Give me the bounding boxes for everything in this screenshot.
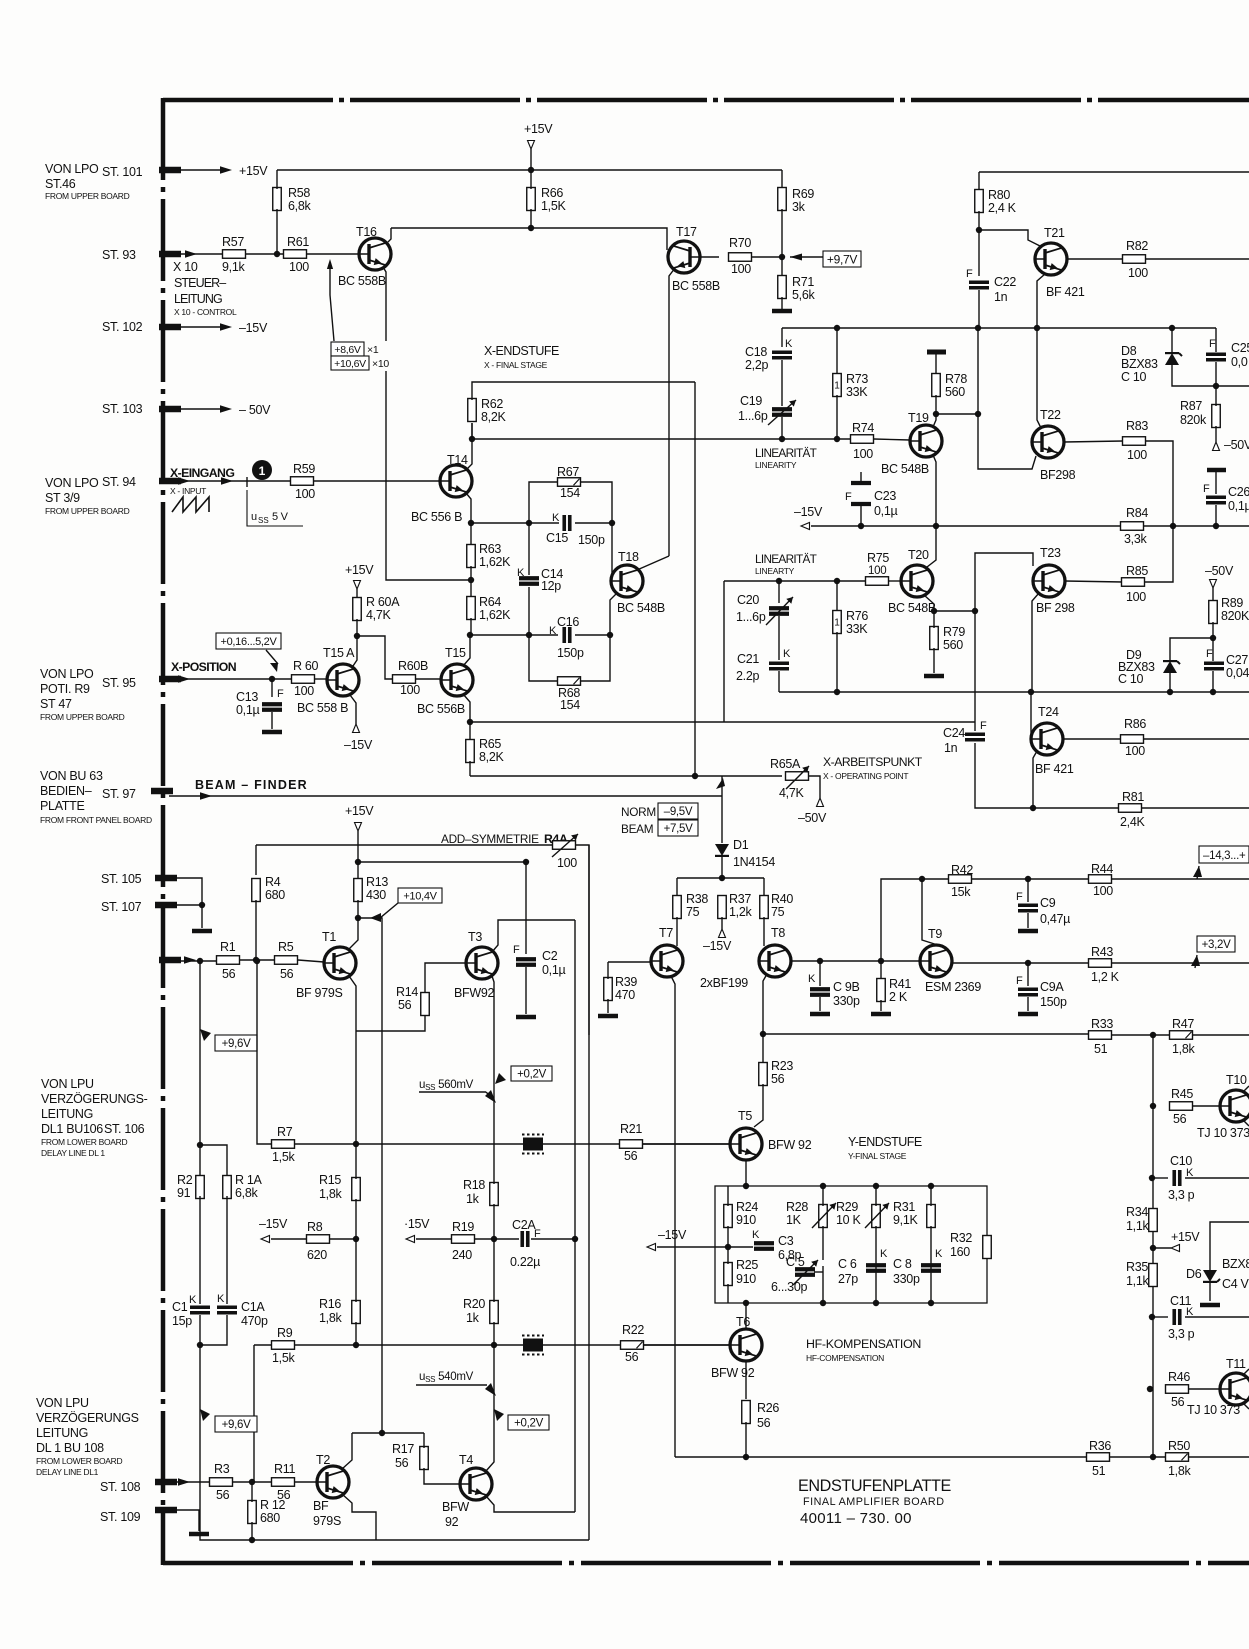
- junction: [1025, 876, 1031, 882]
- wire R71 bottom: [781, 297, 783, 309]
- junction: [692, 773, 698, 779]
- svg-text:K: K: [552, 512, 560, 524]
- junction: [1150, 1245, 1156, 1251]
- resistor R57: [223, 250, 246, 259]
- resistor R47: [1170, 1031, 1193, 1040]
- wire R1-R5: [240, 959, 274, 961]
- wire T6 emitter: [745, 1361, 747, 1399]
- wire lin2 rail: [724, 580, 865, 582]
- wire R38 bottom: [676, 917, 678, 946]
- wire ST.109 stub: [172, 1510, 199, 1531]
- svg-text:820k: 820k: [1180, 413, 1207, 427]
- svg-text:2,2p: 2,2p: [745, 358, 768, 372]
- svg-text:3,3 p: 3,3 p: [1168, 1188, 1195, 1202]
- wire T7 base: [608, 961, 651, 963]
- svg-text:1: 1: [834, 381, 840, 392]
- svg-text:R50: R50: [1168, 1439, 1190, 1453]
- arrow +9,7V pointer: [790, 254, 802, 261]
- svg-text:X-EINGANG: X-EINGANG: [170, 466, 234, 480]
- resistor R80: [975, 190, 984, 213]
- supply bar R78: [927, 350, 946, 355]
- svg-text:FROM LOWER BOARD: FROM LOWER BOARD: [36, 1456, 123, 1466]
- wire ST.108: [172, 1481, 209, 1483]
- wire D6 top: [1210, 1222, 1249, 1271]
- wire C11 right: [1185, 1316, 1249, 1318]
- svg-text:F: F: [1016, 891, 1023, 903]
- svg-text:56: 56: [757, 1416, 771, 1430]
- capacitor C16: [564, 627, 570, 643]
- svg-text:K: K: [935, 1248, 943, 1260]
- resistor R14: [421, 993, 430, 1016]
- svg-text:ST.46: ST.46: [45, 177, 76, 191]
- wire T23 to R85: [1065, 581, 1123, 582]
- wire R87 top: [1215, 386, 1217, 406]
- label box +10,6V: [331, 356, 369, 370]
- wire R89 top: [1212, 588, 1214, 602]
- svg-text:91: 91: [177, 1186, 191, 1200]
- svg-text:ST. 101: ST. 101: [102, 165, 143, 179]
- capacitor C13: [262, 704, 282, 710]
- svg-text:R4: R4: [265, 875, 281, 889]
- svg-text:K: K: [189, 1294, 197, 1306]
- transistor T9: [920, 945, 952, 977]
- transistor T7: [651, 945, 683, 977]
- arrow +9,6V b: [200, 1409, 210, 1421]
- ferrite bead Y2: [522, 1336, 544, 1355]
- wire C2 column: [525, 862, 527, 954]
- capacitor C1: [190, 1307, 210, 1313]
- svg-text:R81: R81: [1122, 790, 1144, 804]
- svg-text:ESM 2369: ESM 2369: [925, 980, 981, 994]
- svg-text:56: 56: [1173, 1112, 1187, 1126]
- svg-text:100: 100: [1125, 744, 1145, 758]
- wire C26 bottom: [1215, 505, 1217, 526]
- svg-text:BEDIEN–: BEDIEN–: [40, 784, 92, 798]
- svg-text:D6: D6: [1186, 1267, 1202, 1281]
- wire C2A row: [494, 1238, 519, 1240]
- svg-text:3k: 3k: [792, 200, 806, 214]
- transistor T22: [1032, 426, 1064, 458]
- wire T19 emitter: [933, 455, 936, 526]
- svg-text:C24: C24: [943, 726, 965, 740]
- connector ST.95: [159, 676, 181, 683]
- junction: [719, 875, 725, 881]
- wire R25 bottom: [727, 1284, 729, 1303]
- arrow +0,2V b: [494, 1409, 504, 1421]
- resistor R2: [196, 1176, 205, 1199]
- junction: [199, 902, 205, 908]
- resistor R18: [490, 1183, 499, 1206]
- supply -15V T19: [801, 523, 810, 530]
- svg-text:100: 100: [557, 856, 577, 870]
- wire ST.94: [177, 480, 291, 482]
- junction: [1150, 1454, 1156, 1460]
- label box +9,6V a: [215, 1035, 257, 1051]
- resistor R70: [729, 253, 752, 262]
- junction: [253, 957, 259, 963]
- svg-text:K: K: [1186, 1306, 1194, 1318]
- junction: [1028, 689, 1034, 695]
- svg-text:1K: 1K: [786, 1213, 802, 1227]
- wire T15 emitter: [463, 694, 470, 722]
- wire T6 base: [643, 1344, 731, 1346]
- wire T2 emitter: [342, 1494, 376, 1540]
- svg-text:R73: R73: [846, 372, 868, 386]
- svg-text:–50V: –50V: [1205, 564, 1234, 578]
- uss 5V bracket: [247, 490, 303, 526]
- wire beamfinder up: [721, 776, 723, 796]
- wire R76 column: [836, 581, 838, 612]
- wire C27 top: [1212, 638, 1214, 661]
- wire D9 bottom: [1169, 671, 1171, 692]
- wire R66 bottom: [530, 209, 532, 228]
- svg-text:5 V: 5 V: [272, 511, 289, 523]
- svg-text:2,4K: 2,4K: [1120, 815, 1145, 829]
- ground C9B: [810, 1012, 830, 1017]
- svg-text:R80: R80: [988, 188, 1010, 202]
- wire R73 column: [836, 328, 838, 374]
- resistor R23: [759, 1063, 768, 1086]
- svg-text:DL1 BU106: DL1 BU106: [41, 1122, 103, 1136]
- resistor R19: [452, 1235, 475, 1244]
- svg-text:VON LPU: VON LPU: [36, 1396, 89, 1410]
- wire R85 to R84 node: [1145, 526, 1173, 582]
- svg-text:R19: R19: [452, 1220, 474, 1234]
- svg-text:100: 100: [295, 487, 315, 501]
- ground C13: [262, 730, 282, 735]
- wire C10 right: [1185, 1177, 1249, 1179]
- junction: [1150, 1032, 1156, 1038]
- junction: [933, 411, 939, 417]
- svg-text:–15V: –15V: [703, 939, 732, 953]
- svg-text:R47: R47: [1172, 1017, 1194, 1031]
- junction: [1170, 523, 1176, 529]
- wire R41 top: [880, 961, 882, 979]
- wire D8 top: [1171, 328, 1173, 352]
- svg-text:–15V: –15V: [239, 321, 268, 335]
- junction: [609, 520, 615, 526]
- svg-text:R62: R62: [481, 397, 503, 411]
- transistor T11: [1220, 1373, 1249, 1405]
- wire +15V stub: [1153, 1247, 1171, 1249]
- svg-text:1,5k: 1,5k: [272, 1351, 295, 1365]
- supply -15V T15A: [353, 724, 360, 733]
- wire R42 right: [972, 878, 1249, 880]
- svg-text:LEITUNG: LEITUNG: [36, 1426, 88, 1440]
- svg-text:K: K: [752, 1229, 760, 1241]
- svg-text:15p: 15p: [172, 1314, 192, 1328]
- svg-text:X 10: X 10: [173, 260, 198, 274]
- wire R14 top: [425, 963, 466, 992]
- svg-text:0.22µ: 0.22µ: [510, 1255, 540, 1269]
- svg-text:FINAL AMPLIFIER BOARD: FINAL AMPLIFIER BOARD: [803, 1496, 945, 1508]
- svg-text:56: 56: [222, 967, 236, 981]
- svg-text:ADD–SYMMETRIE: ADD–SYMMETRIE: [441, 832, 539, 846]
- wire R79 bottom: [933, 648, 935, 673]
- wire R17 bottom: [424, 1468, 460, 1484]
- resistor R67: [558, 478, 581, 487]
- svg-text:ST 3/9: ST 3/9: [45, 491, 80, 505]
- capacitor C15: [564, 515, 570, 531]
- svg-text:+15V: +15V: [345, 804, 374, 818]
- svg-text:R24: R24: [736, 1200, 758, 1214]
- resistor R76: [833, 611, 842, 634]
- wire R20 bottom: [493, 1322, 495, 1345]
- border frame top: [163, 98, 1249, 103]
- wire R29 bottom: [875, 1226, 877, 1303]
- wire ST.105 stub: [172, 878, 202, 928]
- svg-text:56: 56: [771, 1072, 785, 1086]
- capacitor C23 plate2: [851, 502, 871, 506]
- capacitor C25: [1206, 354, 1226, 360]
- svg-text:75: 75: [771, 905, 785, 919]
- svg-text:T7: T7: [659, 926, 673, 940]
- wire R78 to T22 col: [936, 413, 978, 415]
- svg-text:154: 154: [560, 486, 580, 500]
- wire T10 emitter stub: [1243, 1120, 1249, 1126]
- border frame bottom: [163, 1561, 1249, 1566]
- svg-text:ST 47: ST 47: [40, 697, 72, 711]
- junction: [743, 1300, 749, 1306]
- svg-text:T23: T23: [1040, 546, 1061, 560]
- wire R60A top: [356, 589, 358, 599]
- wire ST.102 stub: [177, 326, 223, 328]
- wire R74 to T19: [874, 439, 910, 440]
- svg-text:T15 A: T15 A: [323, 646, 355, 660]
- wire +15V T1 col: [357, 831, 359, 862]
- wire R63 bottom: [470, 566, 472, 597]
- svg-text:BC 558B: BC 558B: [672, 279, 720, 293]
- wire +15V rail: [277, 169, 782, 171]
- wire T22 to R83: [1064, 441, 1123, 442]
- svg-text:3,3 p: 3,3 p: [1168, 1327, 1195, 1341]
- resistor R82: [1123, 255, 1146, 264]
- junction: [491, 1342, 497, 1348]
- svg-text:ST. 103: ST. 103: [102, 402, 143, 416]
- HF-komp box outline: [715, 1186, 987, 1303]
- junction: [779, 254, 785, 260]
- wire top rail right: [979, 171, 1249, 173]
- junction: [779, 436, 785, 442]
- svg-text:ST. 107: ST. 107: [101, 900, 142, 914]
- wire R8 right: [330, 1238, 356, 1240]
- resistor R84: [1121, 522, 1144, 531]
- svg-text:D1: D1: [733, 838, 749, 852]
- transistor T15: [441, 664, 473, 696]
- svg-text:R 60A: R 60A: [366, 595, 400, 609]
- arrow ST.103: [220, 405, 232, 412]
- wire C25 bottom: [1215, 362, 1217, 386]
- wire C11 row: [1153, 1316, 1168, 1318]
- svg-text:×10: ×10: [372, 358, 389, 370]
- wire lin2 left column: [723, 581, 725, 722]
- junction: [469, 436, 475, 442]
- wire T20 collector: [927, 526, 936, 567]
- svg-text:1,8k: 1,8k: [319, 1187, 342, 1201]
- svg-text:R42: R42: [951, 863, 973, 877]
- svg-text:VON BU 63: VON BU 63: [40, 769, 103, 783]
- wire R33 right: [1112, 1034, 1249, 1036]
- wire T9 emitter: [952, 962, 1249, 964]
- svg-text:BC 548B: BC 548B: [617, 601, 665, 615]
- svg-text:BC 558B: BC 558B: [338, 274, 386, 288]
- resistor R79: [930, 627, 939, 650]
- resistor R24: [724, 1205, 733, 1228]
- svg-text:8,2K: 8,2K: [479, 750, 504, 764]
- resistor R85: [1122, 578, 1145, 587]
- wire rail y692: [779, 691, 1249, 693]
- svg-text:BEAM – FINDER: BEAM – FINDER: [195, 778, 308, 792]
- svg-text:+15V: +15V: [345, 563, 374, 577]
- wire R82 right: [1146, 258, 1249, 260]
- wire R31 bottom: [930, 1226, 932, 1303]
- svg-text:R59: R59: [293, 462, 315, 476]
- wire R58 column: [276, 170, 278, 189]
- junction: [354, 633, 360, 639]
- junction: [817, 958, 823, 964]
- resistor R28: [819, 1205, 828, 1228]
- resistor R1A: [223, 1176, 232, 1199]
- svg-text:R41: R41: [889, 977, 911, 991]
- junction: [197, 1342, 203, 1348]
- svg-text:PLATTE: PLATTE: [40, 799, 85, 813]
- junction: [873, 1183, 879, 1189]
- transistor T23: [1033, 565, 1065, 597]
- capacitor C6: [866, 1265, 886, 1271]
- wire T3 loop column: [574, 920, 576, 1512]
- diode D9: [1163, 661, 1180, 673]
- svg-text:1: 1: [834, 618, 840, 629]
- wire Y rail top: [763, 1033, 1089, 1035]
- svg-text:1n: 1n: [994, 290, 1008, 304]
- wire R68 right: [580, 635, 610, 681]
- svg-text:3,3k: 3,3k: [1124, 532, 1147, 546]
- resistor R38: [673, 896, 682, 919]
- wire R19 right: [475, 1238, 494, 1240]
- svg-text:R3: R3: [214, 1462, 230, 1476]
- svg-text:LINEARTY: LINEARTY: [755, 566, 795, 576]
- svg-text:R46: R46: [1168, 1370, 1190, 1384]
- wire R40 bottom: [763, 917, 765, 946]
- svg-text:12p: 12p: [541, 579, 561, 593]
- wire R9 row: [254, 1344, 731, 1346]
- wire T15 emitter row: [470, 721, 975, 723]
- transistor T24: [1031, 723, 1063, 755]
- wire R64 bottom: [470, 618, 472, 635]
- resistor R44: [1089, 875, 1112, 884]
- svg-text:C27: C27: [1226, 653, 1248, 667]
- transistor T18: [611, 565, 643, 597]
- connector ST.106: [159, 957, 181, 964]
- svg-text:5,6k: 5,6k: [792, 288, 815, 302]
- svg-text:LINEARITÄT: LINEARITÄT: [755, 446, 817, 460]
- resistor R86: [1121, 735, 1144, 744]
- svg-text:VON LPU: VON LPU: [41, 1077, 94, 1091]
- svg-text:F: F: [980, 720, 987, 732]
- svg-text:T17: T17: [676, 225, 697, 239]
- resistor R61: [284, 250, 307, 259]
- svg-text:1N4154: 1N4154: [733, 855, 775, 869]
- svg-text:56: 56: [216, 1488, 230, 1502]
- svg-text:BC 556B: BC 556B: [417, 702, 465, 716]
- wire ST.107 stub: [172, 904, 202, 906]
- svg-text:1,1k: 1,1k: [1126, 1219, 1149, 1233]
- junction: [467, 632, 473, 638]
- wire R89 bottom: [1212, 622, 1214, 638]
- wire T24 emitter row: [1063, 738, 1249, 740]
- svg-text:R66: R66: [541, 186, 563, 200]
- connector ST.103: [159, 406, 181, 413]
- junction: [1213, 523, 1219, 529]
- wire emitter row: [471, 522, 559, 524]
- svg-text:BFW 92: BFW 92: [711, 1366, 755, 1380]
- svg-text:9,1K: 9,1K: [893, 1213, 918, 1227]
- capacitor C14: [519, 578, 539, 584]
- wire R16 top: [355, 1239, 357, 1302]
- svg-text:910: 910: [736, 1272, 756, 1286]
- wire R4 bottom: [255, 900, 257, 960]
- transistor T14: [440, 465, 472, 497]
- wire R3-R11: [233, 1481, 271, 1483]
- supply -50V R89: [1210, 580, 1217, 589]
- svg-text:2.2p: 2.2p: [736, 669, 759, 683]
- diode D1: [715, 844, 729, 856]
- sawtooth symbol: [172, 497, 209, 512]
- svg-text:C9A: C9A: [1040, 980, 1064, 994]
- trimmer arrow C5: [793, 1260, 818, 1285]
- wire sym rail2: [358, 861, 526, 863]
- wire R58 bottom: [276, 209, 278, 254]
- junction: [858, 523, 864, 529]
- svg-text:BF 421: BF 421: [1046, 285, 1085, 299]
- svg-text:ST. 93: ST. 93: [102, 248, 136, 262]
- svg-text:56: 56: [1171, 1395, 1185, 1409]
- svg-text:BF 298: BF 298: [1036, 601, 1075, 615]
- wire T17 collector down: [669, 268, 675, 556]
- label box 0,16-5,2V: [216, 633, 281, 649]
- svg-text:R71: R71: [792, 275, 814, 289]
- connector ST.97: [151, 788, 173, 795]
- svg-text:C19: C19: [740, 394, 762, 408]
- capacitor C20: [769, 608, 789, 614]
- svg-text:K: K: [217, 1293, 225, 1305]
- svg-text:40011 – 730. 00: 40011 – 730. 00: [800, 1510, 912, 1527]
- junction: [931, 608, 937, 614]
- svg-text:K: K: [785, 338, 793, 350]
- svg-text:820K: 820K: [1221, 609, 1249, 623]
- wire R12 bottom: [251, 1522, 253, 1540]
- svg-text:T3: T3: [468, 930, 482, 944]
- supply -15V R24: [647, 1244, 656, 1251]
- label box +0,2V a: [511, 1066, 552, 1081]
- svg-text:R64: R64: [479, 595, 501, 609]
- wire rail X drive: [472, 438, 851, 440]
- svg-text:R36: R36: [1089, 1439, 1111, 1453]
- junction: [353, 1141, 359, 1147]
- svg-text:56: 56: [280, 967, 294, 981]
- arrow ST.94 a: [178, 477, 190, 484]
- svg-text:560: 560: [945, 385, 965, 399]
- svg-text:680: 680: [265, 888, 285, 902]
- svg-text:R35: R35: [1126, 1260, 1148, 1274]
- wire bottom rail: [675, 1456, 1086, 1458]
- svg-text:HF-COMPENSATION: HF-COMPENSATION: [806, 1353, 884, 1363]
- wire R87 bottom: [1215, 426, 1217, 442]
- svg-text:R57: R57: [222, 235, 244, 249]
- wire C20-C21: [778, 616, 780, 660]
- resistor R22: [621, 1341, 644, 1350]
- svg-text:C9: C9: [1040, 896, 1056, 910]
